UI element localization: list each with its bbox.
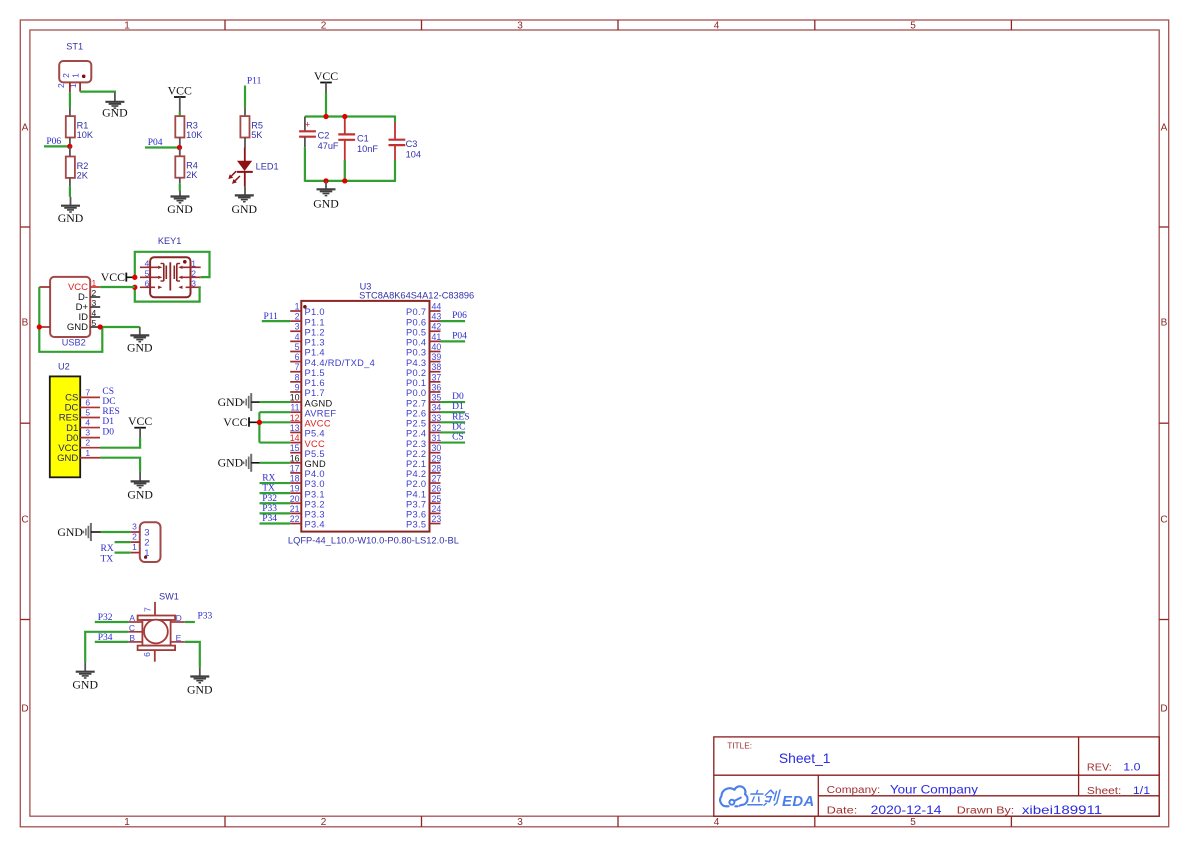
wire U2 GND (100, 458, 140, 472)
svg-text:10: 10 (290, 393, 300, 403)
capacitor C3 (389, 116, 421, 182)
svg-text:REV:: REV: (1087, 763, 1112, 774)
capacitor C1 (338, 117, 378, 181)
svg-text:EDA: EDA (782, 794, 815, 810)
svg-text:8: 8 (295, 372, 300, 382)
svg-text:2020-12-14: 2020-12-14 (871, 803, 942, 817)
svg-text:P11: P11 (247, 77, 262, 87)
wire header pin3 to GND (101, 531, 131, 533)
svg-text:P0.1: P0.1 (406, 378, 426, 388)
svg-text:2: 2 (321, 21, 327, 32)
svg-text:5: 5 (910, 21, 916, 32)
junction at R3/R4/P04 (177, 145, 182, 150)
ground below U2 (127, 472, 153, 502)
wire VCC to capacitor rail (325, 93, 327, 117)
svg-text:R5: R5 (251, 121, 263, 131)
svg-text:9: 9 (295, 382, 300, 392)
svg-text:P3.4: P3.4 (305, 520, 325, 530)
svg-text:P5.4: P5.4 (305, 429, 325, 439)
svg-text:1: 1 (85, 448, 90, 458)
svg-text:2: 2 (144, 538, 149, 549)
ground flag at U3 pin10 (218, 393, 260, 411)
svg-text:GND: GND (102, 105, 128, 119)
svg-text:3: 3 (517, 817, 523, 828)
svg-text:39: 39 (432, 352, 442, 362)
svg-text:GND: GND (67, 322, 88, 333)
wire R4 to GND (179, 184, 181, 191)
svg-text:13: 13 (290, 423, 300, 433)
svg-text:2: 2 (56, 83, 66, 88)
svg-text:P4.4/RD/TXD_4: P4.4/RD/TXD_4 (305, 358, 376, 368)
svg-text:10K: 10K (77, 130, 94, 140)
svg-text:D0: D0 (452, 392, 464, 402)
resistor R4 (175, 148, 198, 184)
svg-text:STC8A8K64S4A12-C83896: STC8A8K64S4A12-C83896 (359, 290, 474, 300)
svg-text:DC: DC (102, 397, 115, 407)
svg-text:P3.1: P3.1 (305, 489, 325, 499)
wire right rail ends (394, 116, 396, 182)
wire header pin1 (115, 551, 131, 553)
svg-text:LQFP-44_L10.0-W10.0-P0.80-LS12: LQFP-44_L10.0-W10.0-P0.80-LS12.0-BL (288, 536, 459, 546)
svg-text:P3.7: P3.7 (406, 499, 426, 509)
svg-text:VCC: VCC (168, 84, 192, 98)
svg-text:P1.2: P1.2 (305, 327, 325, 337)
svg-text:D0: D0 (102, 427, 114, 437)
svg-text:1: 1 (132, 542, 137, 552)
svg-text:AVREF: AVREF (305, 408, 337, 418)
junction capacitor rail bottom at GND (323, 178, 328, 183)
svg-text:21: 21 (290, 504, 300, 514)
wire U3 pin20 P32 (260, 502, 291, 504)
svg-text:3: 3 (132, 522, 137, 532)
svg-text:P0.3: P0.3 (406, 348, 426, 358)
wire U3 pin41 P04 (441, 340, 466, 342)
svg-text:3: 3 (517, 21, 523, 32)
svg-text:12: 12 (290, 413, 300, 423)
svg-text:GND: GND (58, 211, 84, 225)
svg-text:Your Company: Your Company (890, 783, 978, 797)
svg-text:CS: CS (102, 387, 114, 397)
svg-text:23: 23 (432, 514, 442, 524)
wire middle branch lower (344, 160, 346, 181)
wire U3 pin19 TX (260, 492, 291, 494)
svg-text:VCC: VCC (223, 415, 247, 429)
wire ST1 pin2 to R1 (69, 92, 71, 107)
svg-text:38: 38 (432, 362, 442, 372)
wire P06 (44, 145, 70, 147)
wire U3 pin18 RX (260, 482, 291, 484)
ground below SW1 right (187, 667, 213, 696)
svg-text:VCC: VCC (128, 414, 152, 428)
svg-text:P2.7: P2.7 (406, 398, 426, 408)
wire U3 pin21 P33 (260, 512, 291, 514)
svg-text:A: A (1161, 123, 1168, 134)
svg-text:P3.3: P3.3 (305, 510, 325, 520)
wire U3 pin34 D1 (441, 411, 466, 413)
svg-text:AVCC: AVCC (305, 419, 331, 429)
svg-text:43: 43 (432, 312, 442, 322)
ground at 3-pin header (57, 523, 100, 541)
ground below capacitor rail (313, 181, 339, 210)
svg-text:10nF: 10nF (357, 144, 378, 154)
junction capacitor rail top at VCC (323, 114, 328, 119)
svg-text:4: 4 (714, 817, 720, 828)
wire VCC to R3 (179, 112, 181, 117)
svg-text:Sheet_1: Sheet_1 (779, 750, 831, 766)
svg-text:41: 41 (432, 332, 442, 342)
svg-text:A: A (22, 123, 29, 134)
wire U3 pin32 DC (441, 431, 466, 433)
svg-text:R1: R1 (77, 121, 89, 131)
wire USB2 shell loop (39, 287, 102, 352)
svg-text:TX: TX (101, 554, 114, 564)
svg-text:GND: GND (72, 678, 98, 692)
svg-text:P2.2: P2.2 (406, 449, 426, 459)
LED LED1 (228, 148, 278, 187)
wire U3 AVREF/AVCC/VCC loop (259, 412, 290, 442)
svg-text:P1.1: P1.1 (305, 317, 325, 327)
svg-text:GND: GND (313, 196, 339, 210)
svg-text:P4.2: P4.2 (406, 469, 426, 479)
junction KEY1 pin6/USB VCC (132, 285, 137, 290)
svg-text:B: B (1161, 318, 1168, 329)
wire header pin2 (115, 541, 131, 543)
resistor R2 (66, 146, 89, 186)
wire USB2 pin1 to KEY1 (100, 286, 135, 288)
svg-text:P3.2: P3.2 (305, 499, 325, 509)
power flag VCC at U3 pin12 (223, 415, 259, 429)
USB connector USB2 (39, 277, 100, 348)
wire KEY1 pin6 loop to pin3 (135, 287, 201, 301)
svg-text:5: 5 (85, 408, 90, 418)
svg-text:B: B (22, 318, 29, 329)
svg-text:P32: P32 (98, 613, 113, 623)
svg-text:P1.5: P1.5 (305, 368, 325, 378)
wire U3 pin33 RES (441, 421, 466, 423)
wire U3 pin35 D0 (441, 401, 466, 403)
svg-text:18: 18 (290, 474, 300, 484)
svg-text:32: 32 (432, 423, 442, 433)
svg-text:5: 5 (910, 817, 916, 828)
wire U3 pin31 CS (441, 441, 466, 443)
svg-text:2: 2 (321, 817, 327, 828)
svg-text:2K: 2K (186, 170, 198, 180)
svg-text:5K: 5K (251, 130, 263, 140)
svg-text:USB2: USB2 (62, 338, 86, 348)
svg-text:Date:: Date: (827, 806, 858, 817)
svg-text:11: 11 (290, 403, 299, 413)
svg-text:P04: P04 (452, 331, 467, 341)
switch KEY1 (140, 236, 201, 297)
svg-text:3: 3 (85, 428, 90, 438)
LCEDA logo (720, 786, 780, 806)
svg-text:P2.4: P2.4 (406, 429, 426, 439)
svg-text:6: 6 (145, 278, 150, 288)
title block (714, 737, 1159, 817)
svg-text:P3.6: P3.6 (406, 510, 426, 520)
resistor R5 (240, 107, 263, 147)
svg-text:2: 2 (191, 268, 196, 278)
svg-text:7: 7 (295, 362, 300, 372)
svg-text:P2.3: P2.3 (406, 439, 426, 449)
junction U3 VCC (257, 420, 262, 425)
svg-text:VCC: VCC (305, 439, 326, 449)
svg-text:VCC: VCC (101, 270, 125, 284)
svg-text:P2.0: P2.0 (406, 479, 426, 489)
svg-text:29: 29 (432, 453, 442, 463)
IC U3 (288, 282, 474, 546)
svg-text:4: 4 (714, 21, 720, 32)
wire U3 pin43 P06 (441, 320, 466, 322)
svg-text:GND: GND (127, 340, 153, 354)
power flag VCC at KEY1 (101, 270, 135, 284)
svg-text:SW1: SW1 (159, 592, 179, 602)
svg-text:P1.3: P1.3 (305, 338, 325, 348)
wire U3 pin2 P11 (262, 320, 290, 322)
wire LED1 to GND (244, 187, 246, 196)
svg-text:44: 44 (432, 302, 442, 312)
svg-text:P1.6: P1.6 (305, 378, 325, 388)
svg-text:6: 6 (295, 352, 300, 362)
wire USB2 pin5 to GND (100, 326, 140, 328)
svg-text:D: D (21, 704, 28, 715)
svg-text:7: 7 (143, 607, 153, 612)
wire capacitor bottom rail (305, 180, 395, 182)
svg-text:2: 2 (85, 438, 90, 448)
svg-text:CS: CS (452, 433, 464, 443)
svg-text:34: 34 (432, 403, 442, 413)
svg-text:GND: GND (187, 683, 213, 697)
svg-text:4: 4 (295, 332, 300, 342)
ground below R2 (58, 197, 84, 225)
wire SW1 B (95, 641, 129, 643)
IC U2 (50, 362, 100, 478)
svg-text:C1: C1 (357, 134, 369, 144)
svg-text:TITLE:: TITLE: (727, 741, 752, 751)
switch SW1 (129, 592, 185, 662)
svg-text:5: 5 (295, 342, 300, 352)
wire left rail below C2 (304, 137, 306, 182)
svg-text:DC: DC (452, 422, 465, 432)
wire ST1 pin1 to GND (80, 90, 115, 93)
wire U3 pin10 AGND (260, 401, 291, 403)
svg-text:1.0: 1.0 (1123, 762, 1140, 774)
svg-text:C2: C2 (318, 131, 330, 141)
svg-text:P2.1: P2.1 (406, 459, 426, 469)
svg-text:16: 16 (290, 453, 300, 463)
svg-text:P0.7: P0.7 (406, 307, 426, 317)
svg-text:P0.2: P0.2 (406, 368, 426, 378)
svg-text:P4.1: P4.1 (406, 489, 426, 499)
svg-text:C: C (129, 623, 135, 633)
svg-text:22: 22 (290, 514, 300, 524)
svg-text:30: 30 (432, 443, 442, 453)
svg-text:27: 27 (432, 474, 442, 484)
wire SW1 C to GND (85, 632, 128, 662)
resistor R1 (66, 107, 94, 146)
wire R2 to GND (69, 186, 71, 197)
svg-text:P4.0: P4.0 (305, 469, 325, 479)
wire SW1 E to GND (185, 642, 200, 667)
svg-text:P4.3: P4.3 (406, 358, 426, 368)
svg-text:6: 6 (142, 652, 152, 657)
svg-text:17: 17 (290, 463, 300, 473)
svg-text:P0.6: P0.6 (406, 317, 426, 327)
svg-text:35: 35 (432, 393, 442, 403)
svg-text:20: 20 (290, 494, 300, 504)
svg-text:40: 40 (432, 342, 442, 352)
ground below R4 (167, 191, 193, 216)
ground below LED1 (232, 195, 258, 216)
svg-text:4: 4 (145, 258, 150, 268)
svg-text:4: 4 (85, 418, 90, 428)
svg-text:1: 1 (124, 21, 130, 32)
svg-text:Sheet:: Sheet: (1087, 786, 1122, 797)
svg-text:P06: P06 (452, 311, 467, 321)
svg-text:RES: RES (452, 412, 469, 422)
svg-text:C: C (1160, 515, 1167, 526)
svg-text:104: 104 (406, 150, 421, 160)
wire P11 to R5 (244, 86, 246, 108)
svg-text:U2: U2 (58, 362, 70, 372)
svg-text:GND: GND (167, 202, 193, 216)
svg-text:1: 1 (70, 73, 80, 78)
svg-text:2: 2 (295, 312, 300, 322)
svg-text:D: D (1160, 704, 1167, 715)
wire capacitor top rail (305, 115, 395, 117)
ground flag at U3 pin16 (218, 454, 260, 472)
svg-text:P34: P34 (98, 633, 113, 643)
svg-text:D1: D1 (452, 402, 464, 412)
svg-text:P3.0: P3.0 (305, 479, 325, 489)
junction USB2 shell/GND (37, 324, 42, 329)
svg-text:GND: GND (218, 395, 244, 409)
connector ST1 (56, 42, 91, 93)
svg-text:42: 42 (432, 322, 442, 332)
svg-text:xibei189911: xibei189911 (1022, 803, 1103, 817)
junction capacitor rail top at C1 (342, 114, 347, 119)
svg-text:P1.7: P1.7 (305, 388, 325, 398)
svg-text:GND: GND (127, 487, 153, 501)
power flag VCC above capacitors (314, 69, 338, 93)
junction capacitor rail bottom at C1 (342, 178, 347, 183)
svg-text:R3: R3 (186, 121, 198, 131)
svg-text:14: 14 (290, 433, 300, 443)
capacitor C2 (299, 117, 339, 152)
svg-text:P2.6: P2.6 (406, 408, 426, 418)
svg-text:1: 1 (191, 258, 196, 268)
svg-text:GND: GND (57, 525, 83, 539)
svg-text:KEY1: KEY1 (158, 236, 182, 246)
svg-text:2: 2 (132, 532, 137, 542)
svg-text:R4: R4 (186, 161, 198, 171)
svg-text:1: 1 (124, 817, 130, 828)
power flag VCC at U2 (128, 414, 152, 437)
svg-text:E: E (176, 633, 182, 643)
svg-text:D1: D1 (102, 417, 114, 427)
ground at ST1 pin1 (102, 92, 128, 119)
svg-text:24: 24 (432, 504, 442, 514)
wire U3 pin16 GND (260, 462, 291, 464)
svg-text:36: 36 (432, 382, 442, 392)
svg-text:1/1: 1/1 (1133, 785, 1150, 797)
svg-text:P2.5: P2.5 (406, 419, 426, 429)
svg-text:3: 3 (295, 322, 300, 332)
svg-text:P1.0: P1.0 (305, 307, 325, 317)
svg-text:GND: GND (305, 459, 327, 469)
junction at R1/R2/P06 (67, 144, 72, 149)
svg-text:+: + (305, 120, 310, 130)
svg-text:GND: GND (232, 202, 258, 216)
svg-text:1: 1 (295, 302, 300, 312)
svg-text:P0.5: P0.5 (406, 327, 426, 337)
svg-text:P0.4: P0.4 (406, 338, 426, 348)
svg-text:47uF: 47uF (318, 141, 339, 151)
svg-text:GND: GND (57, 453, 78, 464)
svg-text:28: 28 (432, 463, 442, 473)
svg-text:Drawn By:: Drawn By: (957, 806, 1014, 817)
svg-text:LED1: LED1 (256, 161, 279, 171)
svg-text:VCC: VCC (314, 69, 338, 83)
svg-text:15: 15 (290, 443, 300, 453)
svg-text:33: 33 (432, 413, 442, 423)
svg-text:37: 37 (432, 372, 442, 382)
wire U2 VCC (100, 438, 140, 448)
svg-text:10K: 10K (186, 130, 203, 140)
connector 3-pin header (131, 522, 161, 562)
svg-text:26: 26 (432, 484, 442, 494)
svg-text:P3.5: P3.5 (406, 520, 426, 530)
wire U3 pin22 P34 (260, 522, 291, 524)
wire P04 (145, 146, 180, 148)
svg-text:C3: C3 (406, 139, 418, 149)
svg-text:R2: R2 (77, 161, 89, 171)
svg-text:31: 31 (432, 433, 442, 443)
svg-text:P5.5: P5.5 (305, 449, 325, 459)
svg-text:P0.0: P0.0 (406, 388, 426, 398)
junction USB2 pin5 (98, 324, 103, 329)
svg-text:B: B (129, 633, 135, 643)
svg-text:AGND: AGND (305, 398, 333, 408)
svg-text:P1.4: P1.4 (305, 348, 325, 358)
svg-text:25: 25 (432, 494, 442, 504)
svg-text:RES: RES (102, 407, 119, 417)
svg-text:P33: P33 (198, 612, 213, 622)
svg-text:A: A (129, 613, 135, 623)
junction KEY1 pin5/VCC (132, 275, 137, 280)
ground below SW1 left (72, 662, 98, 692)
svg-text:6: 6 (85, 397, 90, 407)
wire KEY1 pin5 loop to pin2 (135, 252, 210, 277)
svg-text:5: 5 (145, 268, 150, 278)
power flag VCC above R3 (168, 84, 192, 112)
ground at USB2 (127, 327, 153, 354)
svg-text:19: 19 (290, 484, 300, 494)
svg-text:7: 7 (85, 387, 90, 397)
svg-text:C: C (21, 515, 28, 526)
svg-text:D: D (176, 613, 182, 623)
resistor R3 (175, 116, 203, 147)
svg-text:2K: 2K (77, 170, 89, 180)
svg-text:Company:: Company: (827, 785, 881, 796)
svg-text:RX: RX (101, 544, 114, 554)
svg-text:GND: GND (218, 456, 244, 470)
wire SW1 A (95, 621, 129, 623)
wire SW1 D P33 (185, 621, 195, 623)
svg-text:ST1: ST1 (66, 42, 83, 52)
svg-text:3: 3 (191, 278, 196, 288)
